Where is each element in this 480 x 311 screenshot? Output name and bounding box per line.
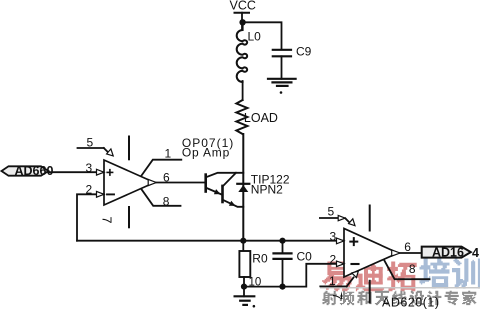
node VCC (230, 0, 256, 13)
wire junction to C9 (243, 22, 282, 49)
wire VCC to junction (241, 13, 243, 30)
svg-text:AD620(1): AD620(1) (382, 296, 440, 310)
svg-text:3: 3 (86, 161, 93, 175)
svg-text:R0: R0 (252, 251, 268, 265)
svg-text:4: 4 (472, 246, 479, 260)
watermark underline (320, 287, 480, 289)
op-amp U2 AD620 power bar (369, 206, 371, 231)
pin 1 stub U2 (320, 285, 346, 287)
minus sign U1 (107, 193, 114, 195)
wire AD660 to pin3 (49, 171, 105, 173)
pin 7 label U2 (rotated) (330, 293, 344, 300)
transistor Q1 TIP122 base bar (204, 175, 207, 192)
Q1 emitter (206, 188, 223, 195)
svg-text:C9: C9 (296, 44, 312, 58)
junction dot C0 bottom (279, 284, 285, 290)
ground under C9 (268, 78, 296, 80)
pin 6 output arrow U2 (392, 250, 400, 256)
svg-text:NPN2: NPN2 (251, 183, 283, 197)
resistor R0 (242, 241, 244, 251)
svg-text:5: 5 (328, 205, 335, 219)
port AD16 (422, 247, 471, 258)
inductor L0 (237, 26, 247, 82)
op-amp U1 OP07 triangle (104, 160, 155, 205)
port AD660 (2, 166, 49, 175)
svg-text:AD660: AD660 (15, 164, 54, 178)
pin 1 stub U1 (142, 160, 182, 176)
minus sign U2 (352, 263, 359, 265)
Q2 emitter (223, 200, 244, 207)
junction dot rail-R0 (240, 238, 246, 244)
pin 8 stub U1 (142, 189, 181, 206)
wire L0 to LOAD (242, 81, 244, 100)
wire bottom rail to pin2 U2 (244, 264, 344, 287)
junction dot rail-C0 (279, 238, 285, 244)
svg-text:1: 1 (329, 274, 336, 288)
pin 2 wire U1 (77, 194, 104, 240)
svg-text:8: 8 (409, 262, 416, 276)
svg-text:5: 5 (87, 136, 94, 150)
capacitor C9 (273, 49, 291, 51)
op-amp U2 AD620 triangle (344, 229, 398, 278)
capacitor C0 (282, 241, 284, 254)
svg-text:3: 3 (330, 230, 337, 244)
svg-text:2: 2 (330, 252, 337, 266)
pin 7 label U1 (rotated) (100, 217, 114, 224)
svg-text:7: 7 (100, 217, 114, 224)
junction dot R0 bottom (241, 284, 247, 290)
Q1 collector (206, 173, 244, 178)
wire LOAD to rail (collector line) (242, 134, 244, 241)
svg-text:LOAD: LOAD (244, 111, 278, 125)
svg-text:6: 6 (404, 240, 411, 254)
svg-text:6: 6 (163, 170, 170, 184)
pin 3 arrow U2 (337, 238, 345, 244)
svg-text:7: 7 (330, 293, 344, 300)
ground under R0 (243, 287, 245, 297)
op-amp U1 OP07 power bar (128, 137, 130, 160)
svg-text:C0: C0 (297, 249, 313, 263)
svg-text:VCC: VCC (230, 0, 256, 13)
pin 2 arrow U2 (337, 261, 345, 267)
label AD620(1) (382, 296, 440, 310)
svg-text:2: 2 (86, 182, 93, 196)
label TIP122 / NPN2 (251, 172, 290, 196)
svg-text:1: 1 (165, 146, 172, 160)
plus sign U1 (107, 171, 112, 173)
pin 5 stub U1 (78, 147, 104, 149)
resistor LOAD (236, 100, 247, 134)
diode (internal) (237, 183, 249, 185)
Q2 base bar (221, 186, 224, 202)
pin 8 stub U2 (384, 260, 430, 279)
plus sign U2 (350, 241, 357, 243)
svg-text:8: 8 (163, 194, 170, 208)
svg-text:AD16: AD16 (432, 246, 464, 260)
pin 5 stub U2 (320, 217, 338, 219)
wire emitter rail (77, 240, 344, 242)
label OP07(1) (182, 136, 234, 160)
Q2 collector (223, 173, 237, 187)
pin 6 output arrow U1 (148, 179, 156, 185)
svg-text:Op Amp: Op Amp (182, 146, 230, 160)
watermark logo (322, 259, 480, 306)
pin 4 label (472, 246, 479, 260)
junction dot top (239, 19, 245, 25)
svg-text:L0: L0 (248, 30, 262, 44)
pin 3 arrow U1 (97, 169, 105, 175)
